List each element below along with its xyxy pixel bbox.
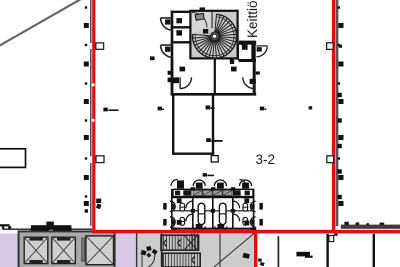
- kitchen bottom wall: [239, 41, 256, 45]
- wall x327: [326, 234, 328, 267]
- bottom wall: [172, 152, 214, 154]
- wall left of small rooms: [171, 11, 174, 95]
- wall line: [3, 229, 93, 230]
- right wall: [212, 95, 214, 155]
- bench symbol far left: [0, 224, 10, 226]
- svg-text:3-2: 3-2: [256, 152, 276, 167]
- landing divider line: [211, 12, 213, 28]
- kitchen side wall: [252, 44, 256, 62]
- label 11: [203, 29, 208, 34]
- stub-bottom door marks: [258, 259, 264, 267]
- corridor lavender floor bottom-left: [0, 234, 137, 267]
- kitchen door wedge: [257, 47, 262, 51]
- upper-left landing room: [192, 12, 213, 34]
- room B label: [176, 30, 182, 35]
- kitchen door leaf+arc: [256, 46, 267, 57]
- wall studs left of big room: [168, 71, 172, 75]
- kitchen room bottom wall: [239, 59, 256, 62]
- door leaf+arc room B: [161, 45, 173, 57]
- bottom red wall: [92, 230, 400, 234]
- door arc left room: [180, 77, 191, 88]
- car 2: [52, 237, 76, 263]
- door wedge A: [165, 19, 170, 24]
- door mark left room: [173, 77, 179, 83]
- gray area diagonal: [214, 233, 254, 267]
- door hinge mark left wall: [150, 56, 155, 60]
- kitchen side room outline: [238, 44, 252, 60]
- small post below person marks: [141, 250, 143, 267]
- desk mark: [296, 252, 310, 257]
- left wall: [172, 95, 174, 155]
- dark wall bar above red, bottom right: [341, 225, 400, 229]
- marks on dark bar: [344, 222, 384, 225]
- right wall: [253, 44, 256, 95]
- svg-text:Keittiö: Keittiö: [245, 0, 260, 38]
- corridor gray floor bottom-center: [137, 234, 254, 267]
- left wall gray companion: [90, 0, 92, 226]
- car 2 door: [53, 228, 72, 231]
- right wall door box 1: [327, 43, 334, 50]
- lavender-gray divider wall: [136, 232, 138, 267]
- column marks along left wall: [84, 6, 89, 212]
- room A label: [176, 18, 182, 23]
- middle divider: [214, 59, 216, 95]
- left wall: [171, 59, 174, 96]
- box on counter: [46, 222, 53, 226]
- counter bar: [31, 225, 71, 228]
- door white box: [329, 236, 334, 242]
- spiral treads: [193, 14, 237, 58]
- left red wall: [92, 0, 95, 233]
- corridor swing arc: [149, 254, 155, 267]
- label P right room: [231, 67, 237, 72]
- divider wall B/C: [171, 41, 191, 43]
- left wall door gap 1: [89, 43, 92, 49]
- wall line x278: [277, 236, 279, 267]
- divider wall A/B: [171, 26, 191, 28]
- label P left room: [180, 67, 186, 72]
- car 1 door: [31, 228, 50, 231]
- door mark right room: [250, 79, 256, 84]
- right red wall: [332, 0, 335, 230]
- wall x373: [373, 234, 375, 267]
- car 3 service lift: [86, 236, 114, 265]
- column marks along right wall: [337, 6, 343, 206]
- corner mark: [334, 234, 338, 236]
- landing door arc: [192, 13, 207, 28]
- square on right wall: [256, 71, 260, 74]
- car 3 side rail: [82, 238, 85, 261]
- shaft outer: [19, 231, 115, 267]
- diagonal site line top-left: [0, 0, 81, 47]
- roof hatch cap: [200, 7, 205, 11]
- mark under text: [241, 42, 245, 45]
- door wedge B: [165, 47, 170, 52]
- right wall door box 2: [327, 156, 334, 163]
- door box below room: [211, 156, 218, 162]
- red stub wall: [254, 233, 257, 267]
- white dots on left red wall: [91, 83, 94, 86]
- gray area furniture mark: [243, 253, 250, 259]
- left wall door box 1: [96, 43, 104, 49]
- car 1: [24, 237, 48, 263]
- top wall of small rooms: [171, 11, 191, 13]
- door leaf+arc room A: [161, 18, 173, 30]
- gray area divider line: [219, 234, 221, 267]
- kitchen label square: [242, 45, 248, 50]
- corner label below stair box: [230, 59, 234, 64]
- person/furniture marks in gray corridor: [140, 246, 157, 258]
- hatch marks left of gray area: [192, 234, 198, 251]
- bottom wall: [171, 93, 257, 96]
- door swing marks right of left wall at y200: [96, 199, 101, 210]
- landing desk: [195, 13, 204, 20]
- left wall door box 2: [96, 156, 104, 163]
- left wall door gap 2: [89, 156, 92, 163]
- stair enclosure: [190, 11, 237, 59]
- corridor wall line: [161, 234, 163, 267]
- door arc right room: [243, 77, 254, 88]
- right wall gray companion: [336, 0, 339, 226]
